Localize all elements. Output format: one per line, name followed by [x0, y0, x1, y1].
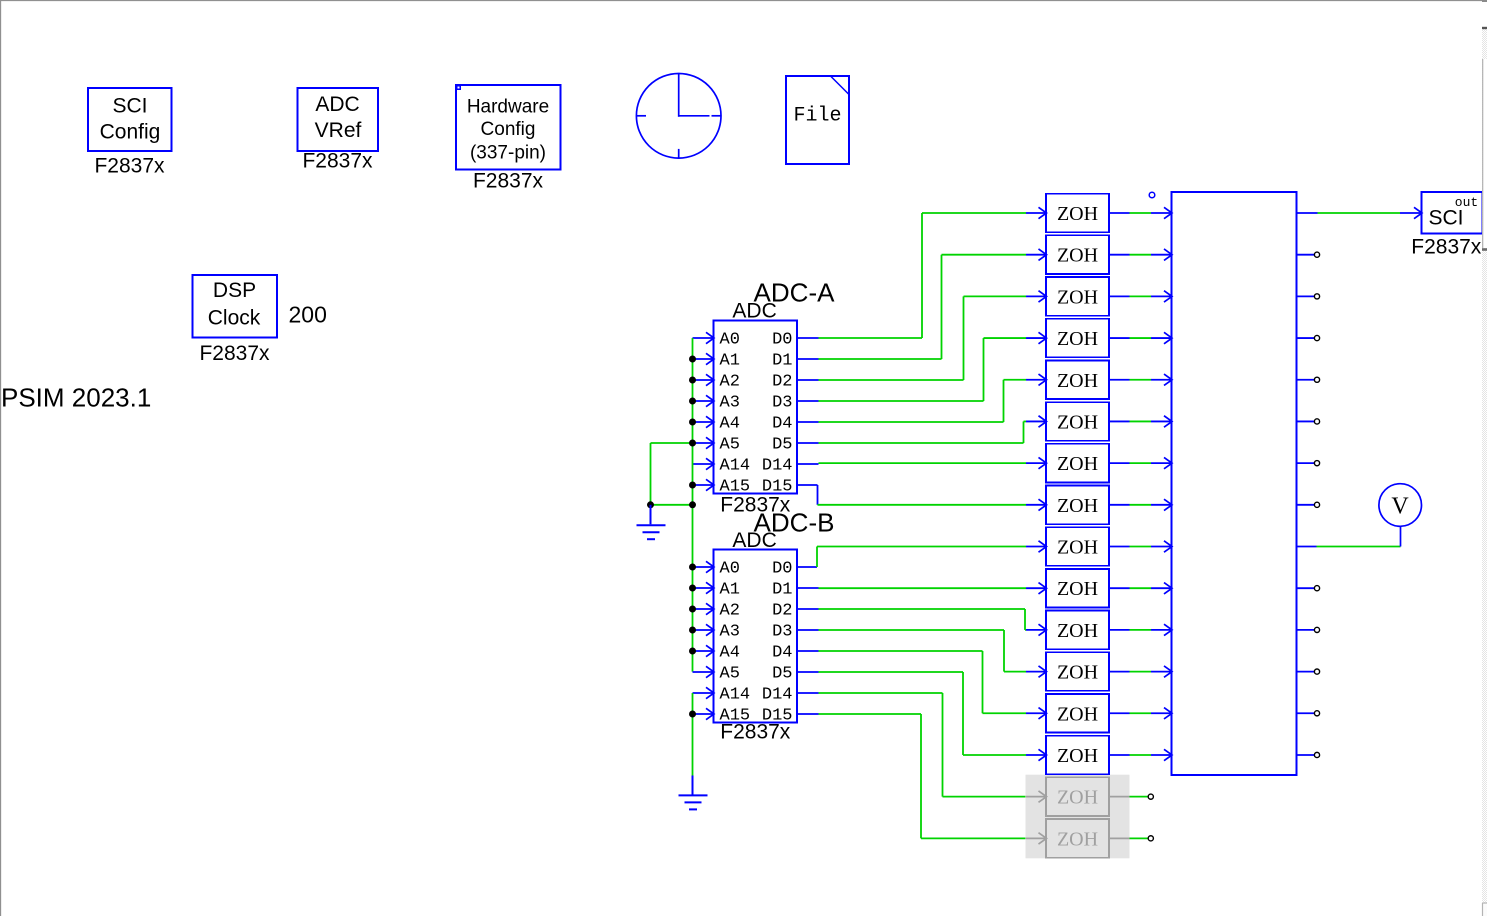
- svg-text:A1: A1: [720, 352, 740, 371]
- svg-text:ADC: ADC: [315, 93, 359, 116]
- svg-text:D2: D2: [772, 373, 792, 392]
- svg-text:Hardware: Hardware: [467, 97, 549, 118]
- wire ADC-A D0 to ZOH1: [819, 213, 1027, 338]
- svg-text:DSP: DSP: [213, 279, 256, 302]
- SCI output block: [1422, 192, 1483, 234]
- svg-text:PSIM 2023.1: PSIM 2023.1: [1, 383, 151, 413]
- ZOH block 3: [1026, 277, 1130, 316]
- SCI Config block: [88, 88, 172, 151]
- svg-text:A1: A1: [720, 581, 740, 600]
- svg-text:A5: A5: [720, 436, 740, 455]
- DLL block unconnected output 7: [1297, 461, 1320, 466]
- DLL block unconnected output 4: [1297, 335, 1320, 340]
- wire ZOH1 to DLL block: [1130, 212, 1152, 214]
- wire ADC-B D0 to ZOH9: [817, 547, 1026, 568]
- ground G1: [637, 505, 666, 539]
- svg-text:V: V: [1391, 494, 1409, 520]
- DLL/C block (large): [1172, 192, 1297, 775]
- wire ZOH11 to DLL block: [1130, 629, 1152, 631]
- ADC block ADC-A: [714, 321, 798, 497]
- svg-text:ZOH: ZOH: [1057, 787, 1098, 809]
- svg-text:A2: A2: [720, 602, 740, 621]
- wire ADC-B D4 to ZOH13: [819, 651, 1027, 713]
- ZOH block 9: [1026, 527, 1130, 566]
- DLL block unconnected output 6: [1297, 419, 1320, 424]
- voltmeter V1: [1379, 484, 1422, 547]
- ZOH block 7: [1026, 444, 1130, 483]
- DLL block unconnected output 13: [1297, 711, 1320, 716]
- ZOH block 12: [1026, 652, 1130, 691]
- svg-text:A4: A4: [720, 415, 740, 434]
- wire ADC-B D1 to ZOH10: [819, 587, 1027, 589]
- wire ADC-A D3 to ZOH4: [819, 338, 1027, 401]
- svg-text:ZOH: ZOH: [1057, 578, 1098, 600]
- svg-text:SCI: SCI: [112, 95, 147, 118]
- ADC-B input pin stubs with arrows: [693, 561, 715, 719]
- svg-text:ZOH: ZOH: [1057, 537, 1098, 559]
- svg-text:SCI: SCI: [1428, 207, 1463, 230]
- DLL block input pin stubs: [1151, 207, 1172, 760]
- window left border: [0, 0, 2, 916]
- wire ZOH16 open end: [1130, 836, 1154, 841]
- svg-text:D3: D3: [772, 623, 792, 642]
- wire: ADC-B lower ground segment A14-A15: [692, 693, 694, 776]
- ADC block ADC-B: [714, 550, 798, 726]
- ZOH block 16: [1026, 819, 1130, 858]
- wire ZOH10 to DLL block: [1130, 587, 1152, 589]
- wire ZOH6 to DLL block: [1130, 420, 1152, 422]
- ZOH block 10: [1026, 569, 1130, 608]
- wire ADC-A D5 to ZOH6: [819, 421, 1027, 443]
- svg-text:200: 200: [289, 301, 327, 327]
- DLL block output 9 stub to voltmeter: [1297, 546, 1317, 548]
- svg-text:ADC: ADC: [732, 300, 776, 323]
- svg-text:ZOH: ZOH: [1057, 411, 1098, 433]
- DLL block unconnected output 2: [1297, 252, 1320, 257]
- svg-text:Config: Config: [481, 119, 536, 140]
- svg-text:A4: A4: [720, 644, 740, 663]
- DSP Clock block: [193, 275, 278, 338]
- svg-text:D14: D14: [762, 686, 793, 705]
- wire ZOH14 to DLL block: [1130, 754, 1152, 756]
- wire ZOH9 to DLL block: [1130, 546, 1152, 548]
- svg-text:File: File: [793, 104, 841, 127]
- svg-text:ZOH: ZOH: [1057, 453, 1098, 475]
- wire ADC-A D15 to ZOH8: [818, 504, 1027, 506]
- scrollbar thumb fragment: [1482, 59, 1487, 250]
- svg-text:A14: A14: [720, 457, 751, 476]
- DLL block unconnected output 12: [1297, 669, 1320, 674]
- unconnected node circle (top of DLL block): [1149, 192, 1155, 198]
- svg-text:A3: A3: [720, 394, 740, 413]
- ADC-B output pin stubs D1-D15: [797, 588, 819, 714]
- ZOH block 11: [1026, 611, 1130, 650]
- scrollbar up button fragment: [1482, 2, 1487, 28]
- wire: ground bus vertical (ADC-A A0 .. ADC-B A5): [692, 338, 694, 672]
- svg-text:A2: A2: [720, 373, 740, 392]
- window top border: [0, 0, 1487, 2]
- wire ZOH12 to DLL block: [1130, 671, 1152, 673]
- svg-text:D4: D4: [772, 644, 792, 663]
- scrollbar top corner fragment: [1482, 0, 1487, 7]
- svg-text:F2837x: F2837x: [94, 155, 165, 178]
- DLL block unconnected output 10: [1297, 586, 1320, 591]
- wire ADC-A D2 to ZOH3: [819, 296, 1027, 380]
- File element: [786, 76, 849, 164]
- wire ZOH3 to DLL block: [1130, 295, 1152, 297]
- ADC-A output pin stub D15 (bent): [797, 485, 818, 505]
- ZOH block 2: [1026, 235, 1130, 274]
- svg-text:ZOH: ZOH: [1057, 620, 1098, 642]
- svg-text:F2837x: F2837x: [720, 721, 791, 744]
- svg-text:ZOH: ZOH: [1057, 703, 1098, 725]
- DLL block unconnected output 5: [1297, 377, 1320, 382]
- ADC VRef block: [298, 88, 379, 151]
- ZOH block 15: [1026, 777, 1130, 816]
- junction dots ADC-A: [647, 356, 696, 509]
- ZOH block 14: [1026, 736, 1130, 775]
- wire ADC-B D14 to ZOH15: [819, 693, 1032, 797]
- wire ADC-B D2 to ZOH11: [819, 609, 1027, 630]
- wire ZOH15 open end: [1130, 794, 1154, 799]
- svg-text:ZOH: ZOH: [1057, 745, 1098, 767]
- svg-text:ZOH: ZOH: [1057, 203, 1098, 225]
- svg-text:ADC: ADC: [732, 529, 776, 552]
- DLL block output 1 stub to SCI: [1297, 212, 1318, 214]
- svg-text:A0: A0: [720, 560, 740, 579]
- svg-text:ZOH: ZOH: [1057, 495, 1098, 517]
- wire ZOH8 to DLL block: [1130, 504, 1152, 506]
- disabled (greyed) selection background: [1026, 775, 1130, 859]
- wire ADC-A D14 to ZOH7: [819, 462, 1027, 464]
- wire ADC-B D5 to ZOH14: [819, 672, 1027, 755]
- DLL block unconnected output 14: [1297, 752, 1320, 757]
- svg-text:Config: Config: [100, 121, 161, 144]
- scrollbar corner: [1483, 903, 1487, 916]
- ZOH block 8: [1026, 486, 1130, 525]
- DLL block unconnected output 11: [1297, 627, 1320, 632]
- svg-text:ZOH: ZOH: [1057, 370, 1098, 392]
- svg-text:D1: D1: [772, 581, 792, 600]
- wire ZOH5 to DLL block: [1130, 379, 1152, 381]
- wire ADC-B D15 to ZOH16: [819, 714, 1032, 838]
- svg-text:ZOH: ZOH: [1057, 245, 1098, 267]
- svg-text:A0: A0: [720, 331, 740, 350]
- svg-text:D0: D0: [772, 560, 792, 579]
- svg-text:Clock: Clock: [208, 306, 261, 329]
- wire DLL to SCI: [1318, 212, 1401, 214]
- svg-text:F2837x: F2837x: [199, 342, 270, 365]
- svg-text:D14: D14: [762, 457, 793, 476]
- junction dots ADC-B: [689, 564, 696, 718]
- wire ZOH4 to DLL block: [1130, 337, 1152, 339]
- ZOH block 1: [1026, 194, 1130, 233]
- wire ADC-A D4 to ZOH5: [819, 380, 1027, 422]
- svg-text:D5: D5: [772, 436, 792, 455]
- svg-text:D5: D5: [772, 665, 792, 684]
- Hardware Config block: [456, 85, 561, 170]
- wire ADC-B D3 to ZOH12: [819, 630, 1027, 672]
- svg-text:A3: A3: [720, 623, 740, 642]
- ZOH block 4: [1026, 319, 1130, 358]
- wire ADC-A D1 to ZOH2: [819, 255, 1027, 359]
- svg-text:D0: D0: [772, 331, 792, 350]
- svg-text:F2837x: F2837x: [1411, 235, 1482, 258]
- clock element: [636, 74, 721, 159]
- ZOH block 5: [1026, 360, 1130, 399]
- ground G2: [679, 776, 708, 810]
- ADC-B output pin stub D0: [797, 566, 817, 568]
- svg-text:D2: D2: [772, 602, 792, 621]
- ZOH block 13: [1026, 694, 1130, 733]
- DLL block unconnected output 3: [1297, 294, 1320, 299]
- wire: A5 loop to ground node: [651, 443, 693, 505]
- svg-text:(337-pin): (337-pin): [470, 143, 546, 164]
- wire DLL to voltmeter: [1317, 546, 1401, 548]
- wire ZOH13 to DLL block: [1130, 712, 1152, 714]
- svg-text:ZOH: ZOH: [1057, 662, 1098, 684]
- SCI input stub with arrow: [1400, 207, 1422, 218]
- wire: horizontal to ground 1: [651, 504, 693, 506]
- ADC-A input pin stubs with arrows: [693, 332, 715, 490]
- svg-text:ZOH: ZOH: [1057, 828, 1098, 850]
- svg-text:ZOH: ZOH: [1057, 286, 1098, 308]
- svg-text:A14: A14: [720, 686, 751, 705]
- wire ZOH7 to DLL block: [1130, 462, 1152, 464]
- svg-text:F2837x: F2837x: [473, 170, 544, 193]
- svg-text:D4: D4: [772, 415, 792, 434]
- svg-text:D3: D3: [772, 394, 792, 413]
- svg-text:D1: D1: [772, 352, 792, 371]
- ADC-A output pin stubs D0-D14: [797, 338, 819, 464]
- svg-text:VRef: VRef: [315, 119, 362, 142]
- DLL block unconnected output 8: [1297, 502, 1320, 507]
- svg-text:F2837x: F2837x: [302, 150, 373, 173]
- svg-text:A5: A5: [720, 665, 740, 684]
- svg-text:ZOH: ZOH: [1057, 328, 1098, 350]
- wire ZOH2 to DLL block: [1130, 254, 1152, 256]
- ZOH block 6: [1026, 402, 1130, 441]
